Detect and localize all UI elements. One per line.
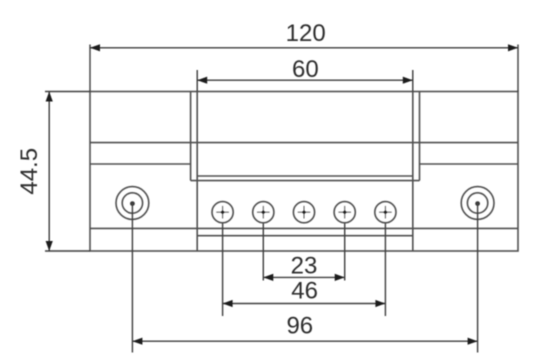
dimension 23 [263, 224, 344, 282]
panel inner bottom [197, 175, 413, 177]
terminal strip line [197, 235, 413, 237]
dimension 60 [197, 56, 413, 92]
raised panel outer right edge [419, 92, 421, 181]
svg-text:120: 120 [286, 20, 326, 47]
svg-text:46: 46 [291, 278, 318, 305]
panel inner right edge [412, 92, 414, 252]
terminal screw 5 [375, 202, 396, 223]
dimension 96 [132, 203, 477, 353]
mounting screw right [461, 187, 494, 220]
raised panel outer bottom [191, 180, 420, 182]
full-width groove line upper [90, 142, 518, 144]
terminal screw 2 [253, 202, 274, 223]
mounting screw left [116, 187, 149, 220]
svg-text:60: 60 [292, 56, 319, 83]
panel inner left edge [196, 92, 198, 252]
body outline [90, 92, 518, 252]
right side ledge line [420, 163, 519, 165]
terminal screw 4 [334, 202, 355, 223]
left side ledge line [90, 163, 191, 165]
raised panel outer left edge [190, 92, 192, 181]
dimension 120 [90, 20, 518, 92]
dimension 44.5 [16, 92, 90, 252]
svg-text:23: 23 [291, 253, 318, 280]
terminal screw 3 [293, 202, 314, 223]
svg-text:96: 96 [286, 313, 313, 340]
terminal screw 1 [212, 202, 233, 223]
full-width groove line lower [90, 227, 518, 229]
dimension 46 [223, 224, 386, 317]
svg-text:44.5: 44.5 [16, 148, 43, 195]
